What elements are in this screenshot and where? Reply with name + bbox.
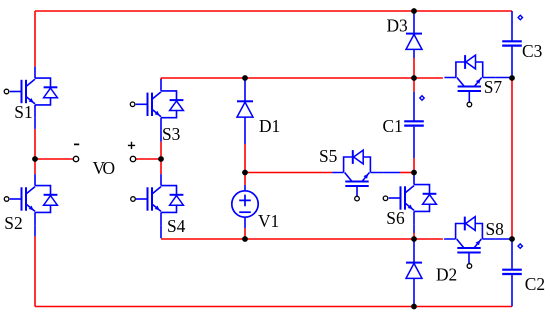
wire C1 bottom stub	[413, 158, 415, 173]
wire VO plus terminal to S3/S4 node	[136, 158, 161, 160]
node S3/S4 junction	[158, 156, 164, 162]
svg-text:S3: S3	[162, 124, 181, 144]
wire left column upper (S1 collector)	[34, 11, 36, 67]
terminal VO plus	[130, 156, 135, 161]
wire S6 collector stub	[413, 173, 415, 175]
svg-text:C3: C3	[522, 41, 543, 61]
transistor S4	[136, 174, 184, 225]
svg-text:S8: S8	[486, 219, 505, 239]
wire V1 minus lead	[244, 228, 246, 239]
svg-text:S6: S6	[386, 208, 405, 228]
label minus sign	[74, 143, 79, 145]
wire S2 emitter blue stub	[34, 225, 36, 236]
capacitor C2 polarity mark	[518, 244, 522, 248]
transistor S8 gate terminal	[467, 264, 472, 269]
wire bottom rail	[35, 306, 512, 308]
transistor S1	[10, 67, 58, 118]
wire D1 anode to S5 node	[244, 144, 246, 173]
wire V1 plus lead	[244, 173, 246, 185]
diode D1	[237, 101, 253, 117]
node S6/D2 junction	[411, 236, 417, 242]
svg-text:D1: D1	[259, 116, 280, 136]
transistor S6	[389, 173, 437, 224]
node S5/S6 junction	[411, 170, 417, 176]
capacitor C1 polarity mark	[420, 96, 424, 100]
transistor S7 gate terminal	[467, 102, 472, 107]
transistor S3 gate terminal	[130, 102, 135, 107]
capacitor C2	[502, 270, 522, 274]
wire right column (C3 node to S8 node)	[511, 78, 513, 239]
wire C3 bottom lead	[511, 47, 513, 78]
wire C1 top lead	[413, 92, 415, 122]
wire node to VO minus terminal	[35, 158, 73, 160]
transistor S7	[444, 55, 495, 103]
transistor S6 gate terminal	[383, 196, 388, 201]
node D3/C1 junction	[411, 75, 417, 81]
wire S6 emitter blue stub	[413, 224, 415, 233]
svg-text:C1: C1	[383, 116, 403, 136]
wire V1 minus blue pin	[244, 218, 246, 228]
wire S8 emitter to C2 node	[495, 238, 512, 240]
wire S3 collector stub	[160, 78, 162, 80]
wire D3 anode to mid rail	[413, 58, 415, 78]
wire D1 anode pin	[244, 117, 246, 144]
transistor S2 gate terminal	[4, 197, 9, 202]
capacitor C1	[404, 121, 424, 125]
svg-text:D3: D3	[387, 16, 409, 36]
wire S3 emitter to node	[160, 142, 162, 159]
svg-text:S1: S1	[14, 102, 32, 122]
wire C1 bottom lead	[413, 127, 415, 158]
svg-text:S5: S5	[319, 146, 338, 166]
svg-text:C2: C2	[525, 274, 545, 294]
svg-text:D2: D2	[436, 265, 457, 285]
wire S5 emitter to node	[400, 172, 414, 174]
wire top rail	[35, 10, 512, 12]
label plus sign	[128, 142, 135, 149]
node D3 top junction	[411, 8, 417, 14]
transistor S4 gate terminal	[131, 197, 136, 202]
wire D2 anode pin	[413, 278, 415, 306]
node D2 bottom junction	[411, 304, 417, 310]
svg-text:S2: S2	[4, 213, 22, 233]
wire S6 emitter to lower rail	[413, 233, 415, 239]
wire mid upper rail	[161, 77, 443, 79]
wire S4 emitter to lower rail	[160, 225, 162, 238]
node S1/S2 junction	[32, 156, 38, 162]
node S8/C2 junction	[509, 236, 515, 242]
wire S7 emitter to C3 node	[496, 77, 512, 79]
svg-text:VO: VO	[93, 158, 115, 178]
source V1	[232, 191, 258, 217]
node C3/S7 junction	[509, 75, 515, 81]
wire S5 emitter blue segment	[383, 172, 400, 174]
wire C1 top stub	[413, 78, 415, 92]
wire D2 cathode pin	[413, 239, 415, 263]
capacitor C3 polarity mark	[518, 15, 522, 19]
wire V1 plus blue pin	[244, 185, 246, 190]
wire D3 cathode pin	[413, 11, 415, 34]
svg-text:S4: S4	[167, 216, 186, 236]
wire C3 top lead	[511, 11, 513, 41]
wire D3 anode pin	[413, 49, 415, 58]
wire S2 collector	[34, 159, 36, 174]
wire S3 emitter blue stub	[160, 131, 162, 142]
wire node to S5 collector	[245, 172, 332, 174]
wire mid lower rail	[161, 238, 443, 240]
wire C2 bottom lead	[511, 275, 513, 307]
wire S1 emitter to node	[34, 129, 36, 159]
capacitor C3	[502, 41, 522, 45]
diode D2	[406, 263, 422, 279]
svg-text:V1: V1	[258, 211, 279, 231]
terminal VO minus	[73, 156, 78, 161]
transistor S1 gate terminal	[4, 89, 9, 94]
node V1 bottom junction	[242, 236, 248, 242]
wire S2 emitter to bottom rail	[34, 236, 36, 306]
transistor S3	[136, 79, 184, 130]
transistor S5 gate terminal	[355, 196, 360, 201]
wire D1 cathode pin	[244, 78, 246, 101]
svg-text:S7: S7	[484, 77, 503, 97]
wire C2 top lead	[511, 239, 513, 269]
wire S4 collector	[160, 159, 162, 174]
diode D3	[406, 34, 422, 50]
transistor S5	[332, 150, 383, 198]
transistor S2	[10, 174, 58, 225]
wire S1 emitter blue stub	[34, 118, 36, 129]
node D1/V1 junction	[242, 170, 248, 176]
transistor S8	[444, 217, 495, 265]
node D1 top junction	[242, 75, 248, 81]
